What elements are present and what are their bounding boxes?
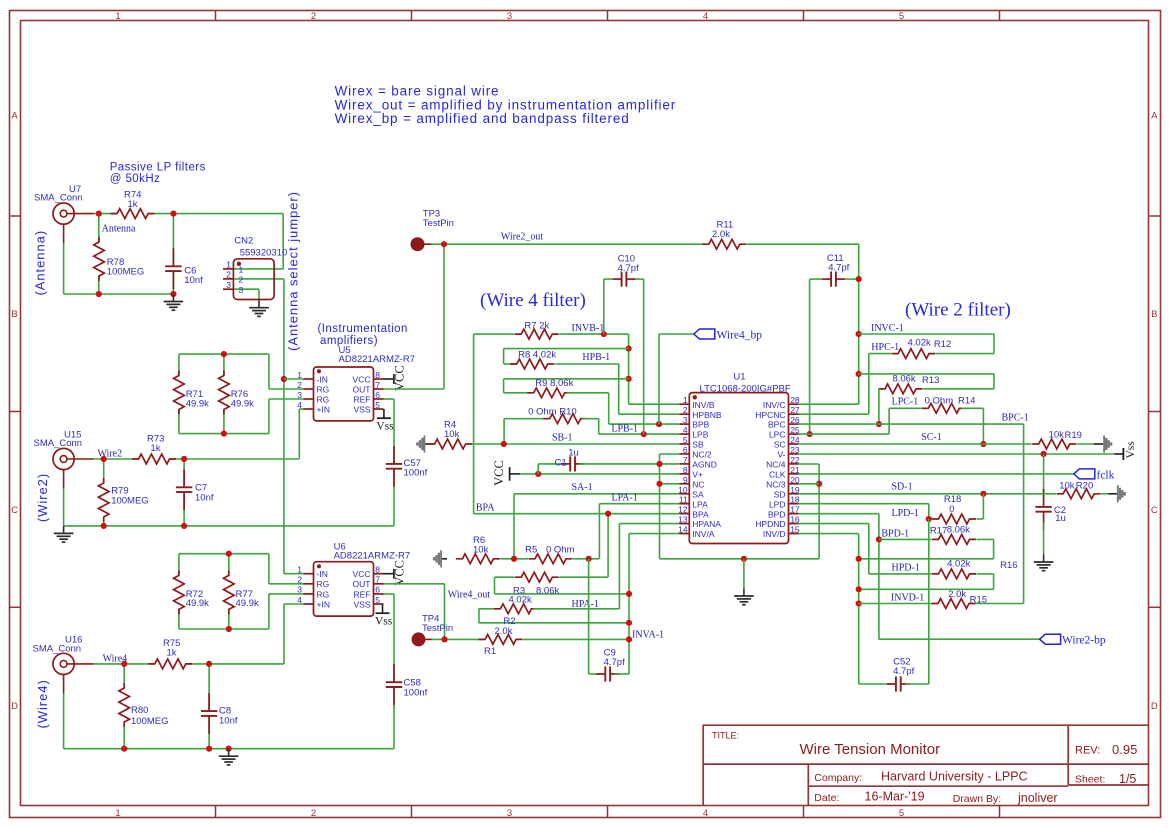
resistor R7 2k xyxy=(521,327,552,341)
svg-text:6: 6 xyxy=(683,445,688,455)
svg-text:C: C xyxy=(11,505,18,516)
svg-text:BPA: BPA xyxy=(692,509,709,519)
svg-text:100MEG: 100MEG xyxy=(107,267,145,278)
wire R14 left lead xyxy=(889,407,926,409)
wire R10 to U1 pin4 xyxy=(598,419,600,434)
junction TP3/U5 OUT xyxy=(441,241,447,247)
svg-text:(Wire 4 filter): (Wire 4 filter) xyxy=(480,290,586,311)
wire R12 left xyxy=(869,353,891,355)
svg-text:RG: RG xyxy=(317,384,330,394)
wire into U1 pin28 xyxy=(798,403,859,405)
wire CN2 pin2 row xyxy=(233,278,284,280)
junction rail/R79 xyxy=(101,523,107,529)
U6 pin 3 stub xyxy=(304,593,314,595)
wire Wire2 to U5 +IN xyxy=(298,409,300,459)
wire BPC vertical xyxy=(1023,424,1025,603)
junction Antenna/R78 xyxy=(96,211,102,217)
wire CLK row xyxy=(799,473,1074,475)
junction chain/pin20 xyxy=(816,481,822,487)
wire R6-R5 xyxy=(500,558,528,560)
wire BPD chain vertical xyxy=(878,514,880,640)
wire C2 bottom xyxy=(1043,523,1045,555)
junction rail/C7 xyxy=(181,523,187,529)
Vss symbol U6 pin5 xyxy=(382,604,384,613)
svg-text:TestPin: TestPin xyxy=(423,218,454,229)
wire C6 branch xyxy=(172,214,174,294)
wire R9 left drop xyxy=(503,379,505,393)
wire C11 left vertical xyxy=(809,279,811,434)
resistor R77 49.9k xyxy=(222,575,237,609)
svg-text:Drawn By:: Drawn By: xyxy=(953,793,1001,805)
wire NC/4 chain vertical xyxy=(818,464,820,559)
svg-text:Company:: Company: xyxy=(814,772,862,784)
wire R2 right / HPA row xyxy=(533,608,619,610)
wire R71 branch xyxy=(178,354,180,434)
svg-text:A: A xyxy=(1151,111,1158,122)
svg-text:100MEG: 100MEG xyxy=(111,496,149,507)
wire R8 right xyxy=(555,363,619,365)
svg-text:fclk: fclk xyxy=(1097,469,1115,481)
wire CN2 pin1 row xyxy=(233,268,283,270)
junction LPD/R18/C52 xyxy=(926,516,932,522)
wire R10 left xyxy=(504,418,548,420)
wire R15 right to BPC vertical xyxy=(975,603,1024,605)
svg-text:5: 5 xyxy=(375,400,380,410)
wire LPD drop xyxy=(928,504,930,519)
wire LPA-1 row xyxy=(599,503,679,505)
svg-text:(Wire 2 filter): (Wire 2 filter) xyxy=(905,300,1011,321)
svg-text:2: 2 xyxy=(311,11,316,22)
frame row tick xyxy=(10,215,21,217)
capacitor C52 4.7pf xyxy=(895,676,902,691)
svg-text:Wire2-bp: Wire2-bp xyxy=(1062,634,1106,646)
svg-text:@ 50kHz: @ 50kHz xyxy=(110,173,161,185)
lead V- to Vss xyxy=(1114,453,1123,455)
svg-text:HPBNB: HPBNB xyxy=(692,410,722,420)
wire R2 left lead xyxy=(479,608,499,610)
svg-text:BPB: BPB xyxy=(692,420,709,430)
svg-text:TestPin: TestPin xyxy=(422,623,453,634)
junction Wire4/R80 xyxy=(121,661,127,667)
svg-text:R7 2k: R7 2k xyxy=(524,321,549,332)
svg-text:Wirex = bare signal wire: Wirex = bare signal wire xyxy=(335,83,500,98)
svg-text:16-Mar-'19: 16-Mar-'19 xyxy=(865,790,925,804)
ground below U15 xyxy=(63,526,65,534)
CN2 polarity dot xyxy=(237,262,241,266)
svg-text:Wire4: Wire4 xyxy=(103,653,128,664)
wire C1 left lead xyxy=(538,463,565,465)
lead R4 xyxy=(425,443,429,445)
svg-text:LPA-1: LPA-1 xyxy=(612,493,638,504)
svg-text:8.06k: 8.06k xyxy=(536,586,559,597)
resistor R72 49.9k xyxy=(172,575,187,609)
wire ground stem xyxy=(743,559,745,589)
svg-text:3: 3 xyxy=(239,285,244,295)
U5 pin 4 stub xyxy=(304,408,314,410)
junction SB row/R10 xyxy=(501,441,507,447)
svg-text:Sheet:: Sheet: xyxy=(1075,774,1105,786)
IC U1 LTC1068-200IG#PBF body xyxy=(689,393,788,544)
frame column tick xyxy=(607,11,609,21)
svg-text:D: D xyxy=(11,701,18,712)
VCC symbol at C1 xyxy=(509,467,511,481)
junction AGND/C9 xyxy=(586,556,592,562)
svg-text:10k: 10k xyxy=(473,545,489,556)
junction pin4 row/C10 xyxy=(641,431,647,437)
svg-text:1: 1 xyxy=(115,11,120,22)
wire into U1 pin4 xyxy=(599,433,680,435)
svg-text:19: 19 xyxy=(790,485,800,495)
U6 pin 7 stub xyxy=(374,583,384,585)
wire LPD row xyxy=(799,503,929,505)
svg-text:AGND: AGND xyxy=(692,460,717,470)
svg-text:17: 17 xyxy=(790,505,800,515)
wire top rail to U6 RG pin2 xyxy=(268,554,270,584)
wire C52 left lead xyxy=(859,683,891,685)
wire NC chain vertical xyxy=(659,454,661,559)
svg-text:CLK: CLK xyxy=(769,469,786,479)
ground below CN2 xyxy=(258,300,260,308)
svg-text:2: 2 xyxy=(297,380,302,390)
wire C8 branch xyxy=(208,664,210,749)
svg-text:6: 6 xyxy=(375,390,380,400)
wire R17 left xyxy=(879,538,932,540)
wire R71/R76 top rail xyxy=(179,353,269,355)
svg-text:SC-1: SC-1 xyxy=(921,432,942,443)
wire C10 right lead xyxy=(635,278,643,280)
svg-text:VSS: VSS xyxy=(353,404,370,414)
capacitor C11 4.7pf xyxy=(830,272,837,287)
svg-text:OUT: OUT xyxy=(353,384,371,394)
wire U1 pin20 NC/3 xyxy=(799,483,820,485)
U1 pin 17 stub xyxy=(789,513,799,515)
wire R79 branch xyxy=(103,459,105,526)
U6 pin 4 stub xyxy=(304,603,314,605)
wire C52 right lead xyxy=(905,683,929,685)
wire U5 REF jog xyxy=(384,398,395,400)
svg-text:-IN: -IN xyxy=(317,569,328,579)
U1 pin 7 stub xyxy=(679,463,689,465)
junction SC row/R14 xyxy=(980,441,986,447)
U5 pin 8 stub xyxy=(374,378,384,380)
svg-text:0 Ohm R10: 0 Ohm R10 xyxy=(528,407,577,418)
wire C9 left lead xyxy=(589,673,601,675)
wire bottom rail to U5 RG pin3 xyxy=(268,399,270,434)
wire R80 branch xyxy=(123,664,125,749)
wire R8 to U1 pin2 xyxy=(618,364,620,414)
junction antenna-select/U5 -IN xyxy=(281,376,287,382)
svg-text:R16: R16 xyxy=(1000,560,1017,571)
svg-text:0 Ohm: 0 Ohm xyxy=(546,545,575,556)
svg-text:1u: 1u xyxy=(1055,513,1066,524)
U1 pin 10 stub xyxy=(679,493,689,495)
wire TP4 to R1 xyxy=(432,638,484,640)
wire INVB-1 row xyxy=(559,333,628,335)
svg-text:3: 3 xyxy=(297,390,302,400)
wire C57 branch / U5 REF xyxy=(393,399,395,526)
wire SC-1 row xyxy=(799,443,1032,445)
svg-text:3: 3 xyxy=(226,280,231,290)
wire R9 right xyxy=(567,392,609,394)
svg-text:10nf: 10nf xyxy=(184,275,203,286)
wire into U5 pin2 xyxy=(269,388,304,390)
wire C9 left vertical xyxy=(588,559,590,674)
svg-text:10: 10 xyxy=(678,485,688,495)
supply arrow at R19 xyxy=(1103,435,1105,452)
wire BPA row to U1 pin12 xyxy=(474,513,680,515)
resistor R3 8.06k xyxy=(521,570,552,584)
junction R73/C7 xyxy=(181,456,187,462)
svg-text:Wire Tension Monitor: Wire Tension Monitor xyxy=(800,741,941,758)
svg-text:4.7pf: 4.7pf xyxy=(828,263,849,274)
capacitor C10 4.7pf xyxy=(621,272,628,287)
Vss symbol U5 pin5 xyxy=(383,409,385,418)
svg-text:RG: RG xyxy=(317,589,330,599)
svg-text:1: 1 xyxy=(683,395,688,405)
U5 pin 7 stub xyxy=(374,388,384,390)
svg-text:3: 3 xyxy=(683,415,688,425)
wire R17 return row xyxy=(859,558,994,560)
svg-text:HPD-1: HPD-1 xyxy=(892,563,920,574)
wire R77 branch xyxy=(228,554,230,629)
wire into U5 pin3 xyxy=(269,398,304,400)
svg-text:10k: 10k xyxy=(1059,481,1075,492)
U5 pin 5 stub xyxy=(374,408,384,410)
svg-text:22: 22 xyxy=(790,455,800,465)
wire R7 left xyxy=(474,333,515,335)
svg-text:INVD-1: INVD-1 xyxy=(891,593,924,604)
svg-text:4.7pf: 4.7pf xyxy=(893,666,914,677)
svg-text:-IN: -IN xyxy=(317,374,328,384)
svg-text:Harvard University - LPPC: Harvard University - LPPC xyxy=(881,770,1028,784)
svg-text:100MEG: 100MEG xyxy=(131,716,169,727)
wire V+ row xyxy=(520,473,679,475)
wire R76 branch xyxy=(223,354,225,434)
wire AGND rail under U1 xyxy=(660,558,820,560)
junction Wire2/R79 xyxy=(101,456,107,462)
svg-text:4: 4 xyxy=(683,425,688,435)
wire C10 left vertical xyxy=(603,279,605,334)
ground below Wire4 rail xyxy=(228,749,230,757)
wire Wire2 ground rail xyxy=(64,525,394,527)
wire U1 pin16 HPDND xyxy=(799,523,869,525)
svg-text:5: 5 xyxy=(899,11,904,22)
U1 pin 24 stub xyxy=(789,443,799,445)
wire R16 left / HPD row xyxy=(869,573,932,575)
svg-text:8.06k: 8.06k xyxy=(947,525,970,536)
U6 pin 1 stub xyxy=(304,573,314,575)
title block line xyxy=(1068,784,1148,786)
wire antenna ground rail xyxy=(64,293,174,295)
lead VCC to wire xyxy=(510,473,520,475)
flag Wire4_bp xyxy=(694,329,715,339)
wire into U5 pin4 xyxy=(299,408,303,410)
title block line xyxy=(807,764,809,805)
resistor R6 10k xyxy=(462,552,493,566)
wire C58 branch / U6 REF xyxy=(393,594,395,749)
svg-text:R5: R5 xyxy=(525,545,537,556)
wire Wire4 to U6 +IN xyxy=(283,604,285,664)
U1 pin 22 stub xyxy=(789,463,799,465)
svg-text:2: 2 xyxy=(297,575,302,585)
svg-text:BPC-1: BPC-1 xyxy=(1002,413,1029,424)
svg-text:RG: RG xyxy=(317,579,330,589)
svg-text:SB-1: SB-1 xyxy=(552,433,573,444)
svg-text:VCC: VCC xyxy=(353,569,371,579)
svg-text:R13: R13 xyxy=(922,375,939,386)
svg-text:Wirex_bp = amplified and bandp: Wirex_bp = amplified and bandpass filter… xyxy=(335,111,630,126)
svg-text:Wire4_out: Wire4_out xyxy=(448,590,491,601)
U1 pin 1 stub xyxy=(679,403,689,405)
flag fclk xyxy=(1074,469,1095,479)
svg-text:5: 5 xyxy=(683,435,688,445)
svg-text:100nf: 100nf xyxy=(404,688,428,699)
wire U16 shell stem xyxy=(63,693,65,749)
junction INVD/R17 return xyxy=(856,556,862,562)
wire Antenna to CN2 pin1 xyxy=(282,214,284,269)
wire C10 right vertical xyxy=(643,279,645,434)
wire U1 pin17 BPD xyxy=(799,513,879,515)
resistor R15 2.0k xyxy=(938,597,969,611)
wire U7 shell stem xyxy=(63,243,65,294)
svg-text:1k: 1k xyxy=(151,443,161,454)
U1 pin 6 stub xyxy=(679,453,689,455)
svg-text:HPB-1: HPB-1 xyxy=(582,352,610,363)
svg-text:2.0k: 2.0k xyxy=(495,626,513,637)
svg-text:27: 27 xyxy=(790,405,800,415)
ground below C2 xyxy=(1043,555,1045,563)
junction BPD/R17 xyxy=(876,536,882,542)
svg-text:R14: R14 xyxy=(958,395,975,406)
svg-text:(Instrumentation: (Instrumentation xyxy=(318,323,408,335)
wire R3 loop row xyxy=(495,593,630,595)
svg-text:18: 18 xyxy=(790,495,800,505)
wire SA-1 row xyxy=(514,493,679,495)
svg-text:jnoliver: jnoliver xyxy=(1017,791,1058,805)
svg-text:7: 7 xyxy=(375,575,380,585)
wire into U1 pin1 xyxy=(629,403,680,405)
wire Wire4_bp vertical xyxy=(658,334,660,424)
wire INVD chain vertical xyxy=(858,534,860,684)
wire R12 to U1 pin27 xyxy=(868,354,870,415)
capacitor C9 4.7pf xyxy=(604,666,611,681)
resistor R75 1k xyxy=(155,657,186,671)
svg-text:CN2: CN2 xyxy=(234,236,253,247)
test point TP3 xyxy=(411,237,425,251)
svg-text:R17: R17 xyxy=(930,526,947,537)
svg-text:REF: REF xyxy=(354,394,371,404)
wire BPA vertical xyxy=(473,334,475,514)
wire R18 to SD row xyxy=(982,494,984,519)
wire R10 to SB row xyxy=(503,419,505,444)
op-amp U5 AD8221ARMZ-R7 body xyxy=(314,367,374,421)
wire R8 left lead xyxy=(504,363,515,365)
svg-text:4.02k: 4.02k xyxy=(947,559,970,570)
svg-text:V+: V+ xyxy=(692,469,703,479)
wire into U1 pin27 xyxy=(799,413,869,415)
svg-text:1u: 1u xyxy=(568,448,579,459)
wire AGND row to U1 pin7 xyxy=(580,463,679,465)
junction rail/R78 xyxy=(96,291,102,297)
wire R1 to INVA-1 xyxy=(523,638,629,640)
svg-text:4: 4 xyxy=(703,11,708,22)
svg-text:28: 28 xyxy=(790,395,800,405)
wire R13 right drop xyxy=(993,374,995,389)
resistor R18 0 xyxy=(939,512,970,526)
U1 pin 12 stub xyxy=(679,513,689,515)
svg-text:RG: RG xyxy=(317,394,330,404)
frame column tick xyxy=(999,11,1001,21)
svg-text:1: 1 xyxy=(239,265,244,275)
U1 pin 5 stub xyxy=(679,443,689,445)
wire Wire4 ground rail xyxy=(64,748,394,750)
capacitor C57 100nf xyxy=(386,463,402,470)
frame column tick xyxy=(215,11,217,21)
resistor R14 0 Ohm xyxy=(928,401,959,415)
wire SB-1 row xyxy=(472,443,680,445)
junction INVB chain/R8 loop xyxy=(626,346,632,352)
wire antenna-select vertical to U5/U6 -IN xyxy=(283,279,285,574)
wire LPC row xyxy=(799,433,890,435)
svg-text:V-: V- xyxy=(777,450,785,460)
wire R3 to BPA row xyxy=(607,514,609,578)
junction pin3 row/Wire4_bp xyxy=(656,421,662,427)
U1 pin 23 stub xyxy=(789,453,799,455)
svg-text:LPD-1: LPD-1 xyxy=(892,508,919,519)
svg-text:INVB-1: INVB-1 xyxy=(572,323,605,334)
test point TP4 xyxy=(412,632,426,646)
svg-text:1/5: 1/5 xyxy=(1119,772,1136,786)
resistor R2 4.02k xyxy=(500,602,531,616)
wire HPD chain vertical xyxy=(868,524,870,574)
svg-text:10nf: 10nf xyxy=(219,716,238,727)
junction SD row/R18 xyxy=(980,491,986,497)
wire U15 shell stem xyxy=(63,488,65,526)
wire SD-1 row xyxy=(799,493,1057,495)
svg-text:R80: R80 xyxy=(131,705,148,716)
wire into U1 pin14 xyxy=(629,533,679,535)
resistor R78 100MEG xyxy=(92,242,107,276)
svg-text:6: 6 xyxy=(375,585,380,595)
wire C7 branch xyxy=(183,459,185,526)
svg-text:LPC-1: LPC-1 xyxy=(892,397,919,408)
junction rail/C8 xyxy=(206,746,212,752)
svg-text:Wire2_out: Wire2_out xyxy=(501,232,544,243)
svg-text:SMA_Conn: SMA_Conn xyxy=(34,193,83,204)
svg-text:(Wire4): (Wire4) xyxy=(35,679,50,728)
svg-text:U1: U1 xyxy=(733,372,745,383)
U6 pin 8 stub xyxy=(374,573,384,575)
junction INVA/R3 loop xyxy=(626,591,632,597)
svg-text:2.0k: 2.0k xyxy=(712,229,730,240)
U1 pin 4 stub xyxy=(679,433,689,435)
svg-text:INVA-1: INVA-1 xyxy=(632,630,664,641)
wire R9 loop row xyxy=(504,378,629,380)
svg-text:13: 13 xyxy=(678,515,688,525)
svg-text:3: 3 xyxy=(507,808,512,819)
wire Wire2-bp row xyxy=(879,638,1040,640)
svg-text:NC/2: NC/2 xyxy=(692,450,712,460)
svg-text:14: 14 xyxy=(678,525,688,535)
wire C10 left lead xyxy=(604,278,613,280)
svg-text:8.06k: 8.06k xyxy=(892,374,915,385)
wire R2 loop row xyxy=(479,622,629,624)
svg-text:LPD: LPD xyxy=(769,499,786,509)
svg-text:INV/B: INV/B xyxy=(692,400,715,410)
svg-text:INV/D: INV/D xyxy=(763,529,786,539)
junction TP4/U6 OUT xyxy=(441,636,447,642)
svg-text:A: A xyxy=(11,111,18,122)
